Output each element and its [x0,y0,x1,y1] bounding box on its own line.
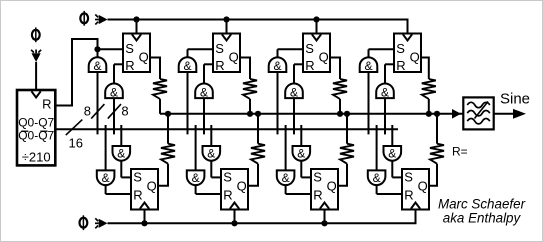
wire G2c output to S [210,161,212,178]
svg-text:&: & [117,146,125,160]
filter block low-pass [463,97,493,129]
wire resistor R1b to summing line [167,114,169,144]
wire G4c input from bus [391,125,393,146]
node summing junction top 2 [247,111,253,117]
and gate G1c (set, bottom) [113,146,131,161]
wire G4a output to S [368,49,370,57]
and gate G3d (reset, bottom) [277,170,295,185]
svg-text:&: & [207,146,215,160]
port arrow bottom phi [99,219,108,228]
svg-text:S: S [305,41,314,56]
svg-text:&: & [381,85,389,99]
wire G3a input from bus [277,72,279,134]
wire G1c input from bus [120,125,122,146]
wire G3c output to S [300,161,302,178]
node summing junction bottom 2 [255,111,261,117]
svg-text:Sine: Sine [500,91,530,108]
node bottom rail junction 2 [231,220,237,226]
svg-text:R=: R= [452,145,468,159]
flip-flop FF3a (top) [303,34,330,73]
wire G2a input from bus [187,72,189,134]
resistor R2b [251,144,265,164]
wire G3b input from bus [293,98,295,134]
svg-text:S: S [215,41,224,56]
svg-text:S: S [223,170,232,185]
flip-flop FF4b (bottom) [402,169,429,210]
node bottom rail junction 3 [321,220,327,226]
flip-flop FF2a (top) [213,34,240,73]
svg-text:R: R [42,97,51,112]
wire FF1b Q output [158,164,168,186]
resistor R4a [422,79,436,99]
wire FF2b Q output [248,164,258,186]
svg-text:Q: Q [319,50,329,65]
wire FF3a Q output [330,58,340,80]
svg-text:&: & [200,85,208,99]
svg-text:&: & [102,171,110,185]
flip-flop FF3b (bottom) [311,169,338,210]
and gate G1b (reset, top) [105,84,123,99]
svg-text:Q0-Q7: Q0-Q7 [18,115,54,129]
node bottom rail junction 1 [141,220,147,226]
svg-text:R: R [305,58,314,73]
svg-text:S: S [404,170,413,185]
wire G2d output to R [195,185,197,194]
wire G4b output to R [384,64,386,83]
and gate G4b (reset, top) [376,84,394,99]
svg-text:Q: Q [139,50,149,65]
svg-text:&: & [273,59,281,73]
wire G4a input from bus [368,72,370,134]
phi symbol left [32,30,40,40]
svg-text:&: & [192,171,200,185]
flip-flop FF1b (bottom) [131,169,158,210]
and gate G4a (set, top) [360,57,378,72]
wire G1a output to S [97,49,99,57]
svg-text:Q: Q [410,50,420,65]
node top rail junction 2 [223,16,229,22]
svg-text:16: 16 [69,136,83,151]
wire G1d output to R [105,185,107,194]
wire G2c input from bus [210,125,212,146]
svg-text:S: S [313,170,322,185]
wire FF1a Q output [150,58,160,80]
svg-text:Q: Q [237,179,247,194]
wire filter output [494,113,514,115]
svg-text:&: & [388,146,396,160]
divider block U1 divide-by-2^10 [17,90,55,165]
svg-text:&: & [297,146,305,160]
and gate G2b (reset, top) [195,84,213,99]
node summing junction top 3 [337,111,343,117]
resistor R1b [161,144,175,164]
wire G1d input from bus [105,125,107,170]
and gate G2d (reset, bottom) [187,170,205,185]
and gate G4d (reset, bottom) [368,170,386,185]
wire G1b output to R [113,64,115,83]
node summing junction top 4 [426,111,432,117]
node summing junction bottom 3 [344,111,350,117]
wire resistor R1a to summing line [159,99,161,114]
svg-text:R: R [313,187,322,202]
flip-flop FF2b (bottom) [221,169,248,210]
flip-flop FF4a (top) [394,34,421,73]
wire G4b input from bus [384,98,386,134]
resistor R3b [340,144,354,164]
svg-text:&: & [282,171,290,185]
svg-text:R: R [215,58,224,73]
wire FF4b Q output [429,164,437,186]
and gate G2a (set, top) [179,57,197,72]
wire bottom clock rail [108,222,417,224]
arrow Sine output [513,109,526,119]
resistor R1a [153,79,167,99]
wire FF3b Q output [338,164,347,186]
wire G4c output to S [391,161,393,178]
wire resistor R2a to summing line [249,99,251,114]
wire G3b output to R [293,64,295,83]
wire left phi to divider clock [35,62,37,90]
and gate G1a (set, top) [89,57,107,72]
node summing junction bottom 4 [434,111,440,117]
svg-text:Q: Q [327,179,337,194]
svg-text:Q: Q [229,50,239,65]
wire G1b input from bus [113,98,115,134]
svg-text:S: S [133,170,142,185]
svg-text:&: & [373,171,381,185]
and gate G3b (reset, top) [285,84,303,99]
svg-text:&: & [183,59,191,73]
resistor R4b [430,144,444,164]
svg-text:8: 8 [84,104,91,119]
svg-text:÷210: ÷210 [22,150,51,165]
svg-text:R: R [396,58,405,73]
and gate G3c (set, bottom) [293,146,311,161]
wire G3d output to R [285,185,287,194]
and gate G1d (reset, bottom) [97,170,115,185]
resistor R3a [333,79,347,99]
wire G4d output to R [376,185,378,194]
wire FF4a Q output [421,58,429,80]
resistor R2a [243,79,257,99]
and gate G2c (set, bottom) [202,146,220,161]
svg-text:&: & [110,85,118,99]
wire G2b output to R [203,64,205,83]
wire 16-line bus [55,128,398,130]
wire G3d input from bus [285,125,287,170]
wire G1c output to S [120,161,122,178]
wire G2b input from bus [203,98,205,134]
svg-text:R: R [404,187,413,202]
node feedback junction at S1 [94,46,100,52]
svg-text:Q: Q [418,179,428,194]
wire G4d input from bus [376,125,378,170]
bus width slash 8 left [91,104,104,119]
svg-text:8: 8 [121,104,128,119]
port arrow left phi [32,53,41,62]
bus width slash 8 right [108,104,121,119]
wire G3a output to S [277,49,279,57]
svg-text:&: & [364,59,372,73]
bus width slash 16 [66,120,83,136]
svg-text:&: & [93,59,101,73]
wire G3c input from bus [300,125,302,146]
wire divider R input feedback [55,39,97,106]
and gate G4c (set, bottom) [384,146,402,161]
svg-text:Marc Schaefer: Marc Schaefer [438,196,526,211]
wire resistor R3a to summing line [339,99,341,114]
wire resistor R4b to summing line [436,114,438,144]
node summing junction bottom 1 [165,111,171,117]
phi symbol top [80,13,88,23]
phi symbol bottom [80,218,88,228]
svg-text:R: R [133,187,142,202]
arrow into filter [452,109,461,119]
wire resistor R3b to summing line [346,114,348,144]
wire resistor R2b to summing line [257,114,259,144]
node top rail junction 3 [313,16,319,22]
wire G2a output to S [187,49,189,57]
wire top clock rail [108,19,409,21]
svg-text:&: & [290,85,298,99]
wire FF2a Q output [240,58,250,80]
node top rail junction 1 [133,16,139,22]
svg-text:Q: Q [147,179,157,194]
flip-flop FF1a (top) [123,34,150,73]
svg-text:aka Enthalpy: aka Enthalpy [443,210,522,225]
and gate G3a (set, top) [269,57,287,72]
port arrow top phi [99,15,108,24]
svg-text:R: R [223,187,232,202]
wire resistor R4a to summing line [428,99,430,114]
svg-text:R: R [125,58,134,73]
wire analog summing line [160,113,463,115]
wire G2d input from bus [195,125,197,170]
svg-text:S: S [125,41,134,56]
wire G1a input from bus [97,72,99,134]
svg-text:S: S [396,41,405,56]
